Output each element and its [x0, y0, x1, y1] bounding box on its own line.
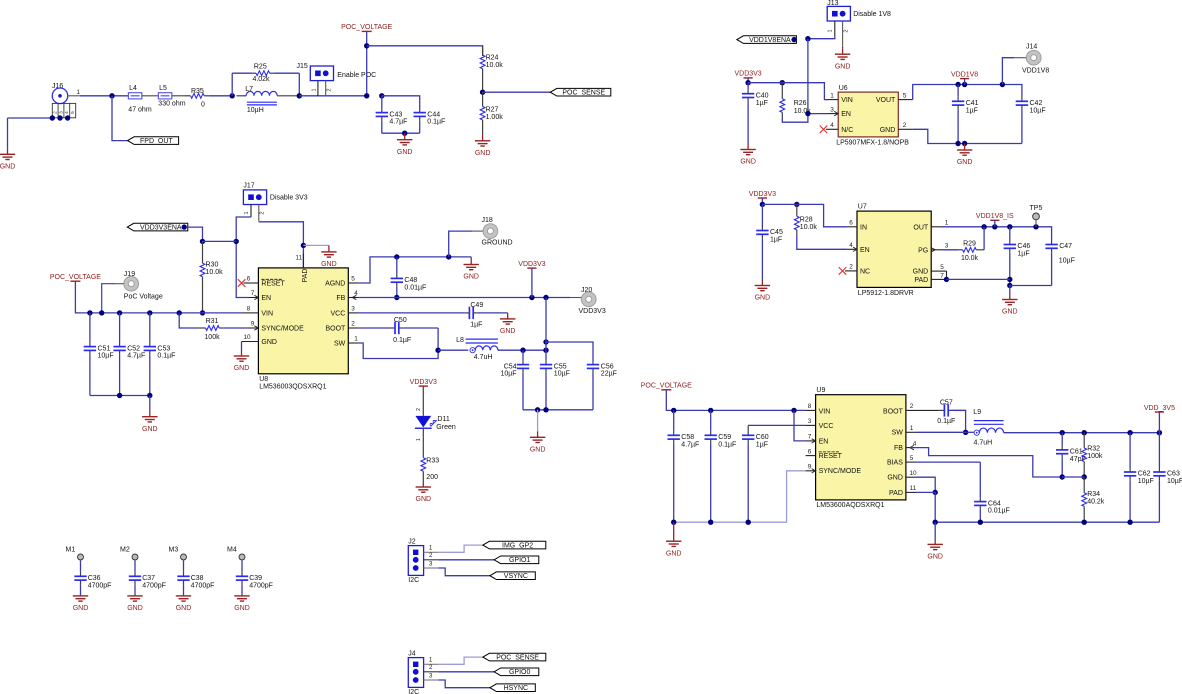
mounting hole M4	[227, 547, 245, 561]
wire	[358, 328, 438, 359]
inductor L8	[438, 337, 498, 361]
U8 pin 4 FB	[348, 290, 358, 300]
wire	[483, 91, 551, 93]
svg-text:4: 4	[913, 440, 917, 447]
ground	[500, 313, 516, 335]
junction	[955, 82, 960, 87]
svg-text:J19: J19	[124, 271, 135, 278]
svg-text:GND: GND	[835, 63, 851, 70]
svg-text:L9: L9	[973, 409, 981, 416]
svg-text:C60: C60	[756, 434, 769, 441]
mounting hole M2	[120, 547, 138, 561]
wire	[299, 95, 366, 97]
junction	[1127, 520, 1132, 525]
wire	[438, 545, 483, 552]
svg-text:GND: GND	[397, 149, 413, 156]
junction	[1060, 474, 1065, 479]
junction	[1082, 430, 1087, 435]
junction	[962, 82, 967, 87]
svg-text:R27: R27	[486, 106, 499, 113]
svg-text:C39: C39	[249, 575, 262, 582]
wire	[523, 409, 593, 411]
power VDD3V3	[734, 71, 761, 78]
test point J18	[483, 224, 498, 239]
U8 pin 2 BOOT	[348, 321, 358, 328]
svg-text:10µH: 10µH	[247, 107, 264, 114]
svg-text:3: 3	[429, 560, 433, 567]
junction	[435, 348, 440, 353]
wire to J18	[449, 231, 472, 257]
svg-text:10µF: 10µF	[98, 353, 114, 360]
resistor R24	[480, 46, 503, 92]
net flag GPIO1	[494, 556, 539, 564]
svg-text:GND: GND	[755, 295, 771, 302]
svg-text:SW: SW	[334, 340, 346, 347]
svg-text:1: 1	[244, 211, 250, 214]
ground	[321, 245, 337, 268]
svg-text:R26: R26	[794, 100, 807, 107]
U9 pin 6 RESET	[806, 448, 816, 455]
svg-text:GND: GND	[142, 426, 158, 433]
svg-text:U6: U6	[839, 85, 848, 92]
svg-text:5: 5	[903, 92, 907, 99]
U9 pin 2 BOOT	[906, 403, 938, 410]
wire	[382, 96, 420, 110]
wire	[1014, 57, 1026, 59]
svg-text:C36: C36	[88, 575, 101, 582]
ferrite body	[158, 85, 171, 99]
svg-text:C42: C42	[1030, 100, 1043, 107]
junction	[933, 520, 938, 525]
wire	[545, 298, 547, 351]
svg-text:7: 7	[940, 273, 944, 280]
U9 pin 4 FB	[906, 440, 917, 450]
power VDD1V8_IS	[976, 213, 1014, 220]
svg-text:22µF: 22µF	[601, 371, 617, 378]
junction	[65, 115, 70, 120]
svg-text:C41: C41	[966, 100, 979, 107]
svg-text:U9: U9	[816, 387, 825, 394]
J17 pin 2	[259, 205, 266, 222]
inductor L8 coil	[475, 346, 498, 350]
wire	[546, 342, 593, 362]
svg-text:5: 5	[910, 455, 914, 462]
net flag VSYNC	[490, 572, 535, 580]
svg-text:M2: M2	[120, 547, 130, 554]
capacitor C55	[540, 350, 570, 410]
svg-text:5: 5	[351, 276, 355, 283]
capacitor C62	[1124, 433, 1154, 523]
junction	[529, 295, 534, 300]
svg-text:EN: EN	[819, 438, 829, 445]
capacitor C50	[358, 317, 438, 344]
svg-text:1: 1	[828, 29, 834, 32]
svg-text:J14: J14	[1026, 43, 1037, 50]
svg-text:2: 2	[429, 664, 433, 671]
svg-text:EN: EN	[261, 295, 271, 302]
J4 pin 3	[424, 672, 439, 680]
wire	[102, 284, 115, 313]
svg-text:C61: C61	[1070, 449, 1083, 456]
svg-text:BIAS: BIAS	[887, 460, 903, 467]
capacitor C46	[1004, 227, 1031, 286]
junction	[301, 243, 306, 248]
wire	[259, 222, 304, 268]
ground	[0, 148, 15, 171]
junction	[963, 430, 968, 435]
svg-text:8: 8	[808, 403, 812, 410]
wire	[1010, 285, 1052, 287]
wire	[172, 95, 185, 97]
wire	[537, 410, 539, 432]
svg-text:6: 6	[808, 448, 812, 455]
junction	[57, 115, 62, 120]
svg-text:VDD3V3: VDD3V3	[749, 191, 776, 198]
svg-text:PG: PG	[918, 247, 928, 254]
svg-text:GND: GND	[416, 496, 432, 503]
wire	[797, 235, 847, 249]
svg-text:VDD1V8ENA: VDD1V8ENA	[749, 37, 791, 44]
svg-text:10µF: 10µF	[1030, 107, 1046, 114]
junction	[117, 310, 122, 315]
J15 pin 2	[326, 81, 333, 96]
svg-text:C58: C58	[681, 434, 694, 441]
net flag GPIO0	[494, 668, 539, 676]
J17 pin 1	[244, 205, 251, 218]
svg-text:2: 2	[843, 29, 849, 32]
test point J20	[581, 292, 596, 307]
J4 pin 2	[424, 664, 439, 672]
capacitor C39	[236, 561, 273, 596]
svg-text:VDD3V3: VDD3V3	[410, 379, 437, 386]
svg-text:C45: C45	[770, 229, 783, 236]
svg-text:4700pF: 4700pF	[249, 582, 273, 589]
net flag IMG_GP2	[483, 541, 546, 549]
junction	[520, 348, 525, 353]
U6 pin 1 VIN	[828, 92, 838, 99]
U8 pin 11 PAD	[295, 254, 303, 268]
svg-text:2: 2	[429, 552, 433, 559]
resistor R33	[421, 454, 439, 481]
svg-text:C49: C49	[470, 302, 483, 309]
svg-text:LM536003QDSXRQ1: LM536003QDSXRQ1	[259, 384, 326, 391]
junction	[147, 310, 152, 315]
wire	[112, 96, 128, 141]
junction	[109, 93, 114, 98]
J13 pin 2	[843, 21, 850, 47]
svg-text:1µF: 1µF	[756, 441, 768, 448]
wire	[762, 204, 847, 226]
svg-text:2: 2	[260, 211, 266, 214]
svg-text:C55: C55	[554, 363, 567, 370]
svg-text:J20: J20	[581, 287, 592, 294]
wire	[8, 117, 52, 119]
svg-text:VDD1V8_IS: VDD1V8_IS	[976, 213, 1014, 220]
svg-text:10.0k: 10.0k	[206, 269, 224, 276]
wire	[438, 671, 494, 673]
U8 pin 7 EN	[249, 290, 259, 300]
junction	[805, 111, 810, 116]
svg-text:C40: C40	[756, 92, 769, 99]
wire	[470, 257, 472, 259]
svg-text:1: 1	[429, 657, 433, 664]
junction	[671, 520, 676, 525]
svg-text:10µF: 10µF	[554, 371, 570, 378]
svg-text:1: 1	[910, 425, 914, 432]
svg-text:J18: J18	[482, 217, 493, 224]
connector J2	[408, 538, 423, 584]
svg-text:L8: L8	[456, 337, 464, 344]
wire	[531, 268, 533, 297]
junction	[297, 93, 302, 98]
svg-text:100k: 100k	[204, 334, 220, 341]
U9 pin 9 SYNC/MODE	[806, 464, 816, 474]
ferrite bead L4	[128, 85, 141, 99]
wire	[761, 198, 763, 204]
J2 pin 3	[424, 560, 439, 568]
svg-text:2: 2	[903, 122, 907, 129]
svg-text:SYNC/MODE: SYNC/MODE	[819, 468, 862, 475]
ground	[127, 596, 143, 612]
junction	[402, 131, 407, 136]
svg-text:0: 0	[201, 102, 205, 109]
svg-text:Green: Green	[436, 424, 456, 431]
capacitor C42	[1016, 96, 1046, 144]
svg-text:PoC Voltage: PoC Voltage	[124, 293, 163, 300]
svg-text:GND: GND	[261, 339, 277, 346]
svg-text:GND: GND	[127, 605, 143, 612]
svg-text:GND: GND	[1002, 309, 1018, 316]
svg-text:GND: GND	[73, 605, 89, 612]
svg-text:VIN: VIN	[261, 310, 273, 317]
svg-text:C51: C51	[98, 345, 111, 352]
svg-text:0.1µF: 0.1µF	[718, 441, 736, 448]
U9 pin 7 EN	[806, 434, 816, 444]
core lines L7	[247, 102, 277, 114]
wire	[438, 680, 490, 688]
ground	[142, 410, 158, 433]
wire	[1158, 412, 1160, 433]
junction	[944, 277, 949, 282]
svg-text:VDD1V8: VDD1V8	[1022, 67, 1049, 74]
svg-text:IN: IN	[860, 224, 867, 231]
U9 pin 3 VCC	[806, 418, 816, 425]
svg-text:C59: C59	[718, 434, 731, 441]
wire	[1062, 476, 1084, 478]
capacitor C59	[705, 410, 737, 522]
junction	[117, 393, 122, 398]
svg-text:J2: J2	[408, 538, 416, 545]
svg-text:N/C: N/C	[841, 127, 853, 134]
svg-text:HSYNC: HSYNC	[504, 685, 529, 692]
svg-text:9: 9	[251, 321, 255, 328]
svg-text:M3: M3	[169, 547, 179, 554]
junction	[364, 43, 369, 48]
svg-text:40.2k: 40.2k	[1087, 498, 1105, 505]
junction	[933, 490, 938, 495]
svg-text:1µF: 1µF	[966, 107, 978, 114]
svg-text:5: 5	[940, 264, 944, 271]
U6 pin 5 VOUT	[898, 92, 912, 99]
junction	[200, 239, 205, 244]
svg-text:J17: J17	[243, 182, 254, 189]
junction	[543, 339, 548, 344]
svg-text:J15: J15	[297, 63, 308, 70]
junction	[200, 310, 205, 315]
junction	[147, 393, 152, 398]
svg-text:GND: GND	[887, 475, 903, 482]
svg-text:C63: C63	[1167, 471, 1180, 478]
svg-text:POC_VOLTAGE: POC_VOLTAGE	[50, 274, 101, 281]
wire	[983, 227, 985, 250]
svg-text:GND: GND	[957, 159, 973, 166]
wire	[935, 521, 1159, 523]
junction	[708, 520, 713, 525]
ground	[397, 133, 413, 156]
wire	[666, 390, 805, 411]
capacitor C63	[1153, 433, 1182, 523]
svg-text:PAD: PAD	[889, 490, 903, 497]
wire	[149, 396, 151, 411]
svg-text:OUT: OUT	[913, 224, 929, 231]
wire	[942, 227, 1052, 239]
wire	[382, 132, 420, 134]
svg-text:10µF: 10µF	[500, 371, 516, 378]
junction	[671, 408, 676, 413]
power VDD3V3	[749, 191, 776, 198]
svg-text:100k: 100k	[1087, 453, 1103, 460]
svg-text:FPD_OUT: FPD_OUT	[140, 138, 173, 145]
junction	[543, 407, 548, 412]
wire	[498, 349, 546, 351]
svg-text:4700pF: 4700pF	[191, 582, 215, 589]
svg-text:NC: NC	[860, 268, 870, 275]
wire	[472, 230, 483, 232]
jumper J13 body	[827, 6, 850, 21]
ground	[666, 522, 682, 557]
svg-text:2: 2	[53, 111, 59, 114]
U9 pin 1 SW	[906, 425, 916, 432]
wire	[570, 297, 581, 299]
capacitor C37	[129, 561, 166, 596]
wire	[794, 410, 806, 441]
wire	[946, 271, 948, 279]
U9 pin 8 VIN	[806, 403, 816, 410]
svg-text:GND: GND	[475, 150, 491, 157]
svg-text:5: 5	[70, 111, 76, 114]
svg-text:VDD3V3: VDD3V3	[579, 308, 606, 315]
jumper J15 body	[310, 66, 333, 81]
test point J14	[1026, 50, 1041, 65]
net flag FPD_OUT	[128, 137, 179, 145]
capacitor C40	[742, 83, 769, 144]
resistor R27	[480, 92, 503, 134]
wire	[203, 240, 237, 242]
svg-text:4.7µF: 4.7µF	[127, 353, 145, 360]
power VDD3V3	[410, 379, 437, 386]
U6 pin 3 EN	[828, 106, 838, 115]
svg-text:C46: C46	[1017, 243, 1030, 250]
svg-text:10.0k: 10.0k	[800, 224, 818, 231]
svg-text:0.1µF: 0.1µF	[427, 119, 445, 126]
junction	[791, 408, 796, 413]
resistor R31	[198, 318, 249, 341]
svg-text:R24: R24	[486, 54, 499, 61]
svg-text:1µF: 1µF	[770, 237, 782, 244]
junction	[981, 224, 986, 229]
svg-text:VIN: VIN	[841, 97, 853, 104]
svg-text:1: 1	[354, 336, 358, 343]
svg-text:GND: GND	[234, 605, 250, 612]
svg-text:VDD3V3: VDD3V3	[518, 261, 545, 268]
svg-text:8: 8	[247, 306, 251, 313]
capacitor C48	[391, 257, 427, 298]
wire	[747, 78, 749, 83]
junction	[1082, 520, 1087, 525]
inductor L9 coil	[979, 428, 1003, 433]
svg-text:U8: U8	[259, 376, 268, 383]
svg-text:R30: R30	[206, 262, 219, 269]
op-amp U7 LP5912-1.8DRVR	[857, 204, 931, 297]
ground	[957, 144, 973, 167]
wire	[916, 461, 980, 463]
svg-text:1µF: 1µF	[1017, 251, 1029, 258]
svg-text:C48: C48	[404, 277, 417, 284]
junction	[992, 224, 997, 229]
junction	[446, 254, 451, 259]
J2 pin 2	[424, 552, 439, 560]
svg-text:R34: R34	[1087, 491, 1100, 498]
svg-text:R31: R31	[206, 318, 219, 325]
resistor R28	[794, 204, 817, 235]
wire	[367, 46, 483, 56]
junction	[805, 36, 810, 41]
wire	[947, 278, 1010, 280]
capacitor C58	[668, 410, 700, 522]
junction	[745, 80, 750, 85]
wire	[358, 257, 471, 283]
capacitor C45	[756, 204, 783, 279]
svg-text:C44: C44	[427, 111, 440, 118]
svg-text:1: 1	[311, 88, 317, 91]
svg-text:Disable 1V8: Disable 1V8	[853, 11, 891, 18]
ground	[234, 596, 250, 612]
U8 pin 10 GND	[242, 334, 259, 341]
wire	[934, 522, 936, 539]
svg-text:6: 6	[849, 220, 853, 227]
U7 pin 3 PG	[931, 243, 949, 253]
mounting hole M1	[66, 547, 84, 561]
U8 pin 5 AGND	[348, 276, 358, 283]
ferrite body	[128, 85, 141, 99]
wire	[748, 83, 828, 100]
svg-text:0.01µF: 0.01µF	[404, 285, 426, 292]
resistor R25	[232, 64, 299, 83]
J13 pin 1	[828, 21, 835, 36]
svg-text:1: 1	[830, 92, 834, 99]
junction	[1127, 430, 1132, 435]
ground	[740, 144, 756, 166]
wire	[179, 313, 198, 328]
wire	[366, 31, 368, 95]
resistor R34	[1082, 477, 1105, 522]
junction	[1007, 283, 1012, 288]
svg-text:4700pF: 4700pF	[142, 582, 166, 589]
svg-text:VDD1V8: VDD1V8	[951, 71, 978, 78]
capacitor C64	[974, 462, 1010, 522]
svg-text:R33: R33	[426, 458, 439, 465]
svg-text:R25: R25	[254, 64, 267, 71]
